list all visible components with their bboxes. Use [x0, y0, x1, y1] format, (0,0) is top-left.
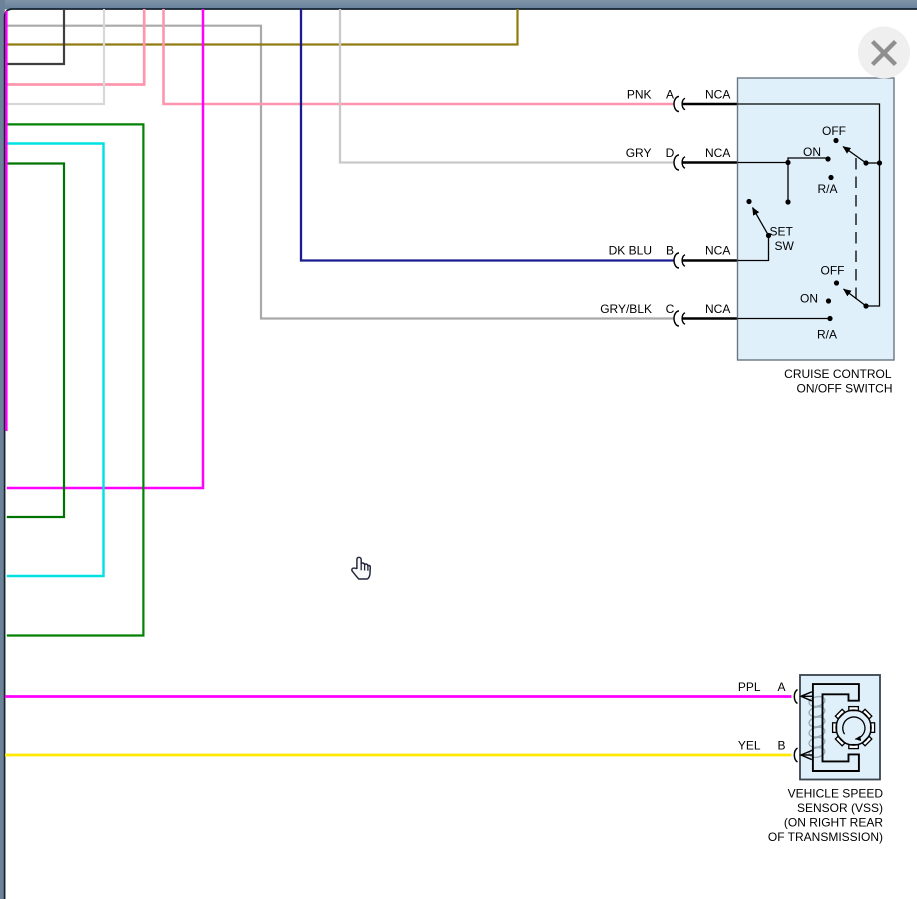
- svg-text:SET: SET: [770, 225, 794, 239]
- svg-text:ON/OFF SWITCH: ON/OFF SWITCH: [797, 382, 893, 396]
- svg-text:PPL: PPL: [738, 680, 761, 694]
- node: lower switch common: [863, 303, 868, 308]
- close button: [858, 27, 910, 79]
- svg-text:R/A: R/A: [817, 182, 837, 196]
- wire stub pin A: [682, 103, 738, 105]
- node: upper OFF contact: [833, 138, 838, 143]
- svg-text:NCA: NCA: [705, 244, 730, 258]
- connector symbol pin A: [674, 97, 685, 112]
- wire: pink net to PNK connector A: [164, 9, 675, 104]
- VSS coil winding: [808, 695, 826, 759]
- wire: magenta along left edge: [5, 11, 7, 431]
- ganged switch linkage (dashed): [855, 158, 857, 300]
- svg-text:DK BLU: DK BLU: [609, 244, 652, 258]
- wire: dark gray corner: [7, 9, 64, 64]
- svg-text:NCA: NCA: [705, 302, 730, 316]
- wire: navy net to DK BLU connector B: [301, 9, 674, 261]
- node: lower ON contact: [826, 298, 831, 303]
- wire: dark green loop: [7, 164, 64, 518]
- svg-text:A: A: [777, 680, 785, 694]
- svg-text:ON: ON: [803, 145, 821, 159]
- VSS pin A arrow: [801, 692, 813, 701]
- svg-text:R/A: R/A: [817, 328, 837, 342]
- svg-text:ON: ON: [800, 292, 818, 306]
- svg-text:PNK: PNK: [627, 88, 652, 102]
- svg-text:D: D: [666, 146, 675, 160]
- connector arc pin B (VSS): [794, 748, 797, 762]
- svg-text:SENSOR (VSS): SENSOR (VSS): [797, 801, 883, 815]
- connector arc pin A (VSS): [794, 690, 797, 704]
- wire stub pin B: [682, 259, 738, 261]
- wire: GRY net inside box: [738, 162, 789, 164]
- wire: switch common tie: [866, 162, 880, 164]
- close button X: [873, 42, 896, 65]
- svg-text:VEHICLE SPEED: VEHICLE SPEED: [788, 787, 884, 801]
- connector symbol pin B: [674, 253, 685, 268]
- node: SET SW common: [766, 233, 771, 238]
- svg-text:GRY/BLK: GRY/BLK: [600, 302, 652, 316]
- left gutter strip: [0, 0, 5, 899]
- switch arm SET SW: [753, 208, 769, 236]
- node: lower OFF contact: [834, 280, 839, 285]
- connector symbol pin C: [674, 311, 685, 326]
- wire: GRY/BLK net inside box to R/A: [738, 318, 831, 320]
- svg-text:OFF: OFF: [821, 264, 845, 278]
- wire: jog to ON contact: [788, 158, 826, 163]
- svg-text:B: B: [666, 244, 674, 258]
- wire: YEL yellow to VSS pin B: [5, 754, 792, 757]
- wire: light gray net to GRY connector D: [340, 9, 674, 163]
- switch arm lower (to OFF): [844, 289, 867, 306]
- svg-text:NCA: NCA: [705, 146, 730, 160]
- svg-text:OF TRANSMISSION): OF TRANSMISSION): [768, 830, 883, 844]
- node: R/A contact on GRY/BLK: [827, 316, 832, 321]
- VSS core bracket: [813, 684, 859, 771]
- vehicle speed sensor box: [800, 675, 880, 780]
- VSS pin B arrow: [801, 751, 813, 760]
- wire: green box loop: [7, 124, 144, 635]
- wire: dark yellow (olive): [7, 9, 518, 45]
- node: upper ON contact: [825, 156, 830, 161]
- svg-text:(ON RIGHT REAR: (ON RIGHT REAR: [784, 816, 883, 830]
- wire stub pin C: [682, 317, 738, 319]
- svg-text:OFF: OFF: [822, 124, 846, 138]
- wire: light gray corner: [7, 9, 104, 104]
- svg-text:A: A: [666, 88, 674, 102]
- VSS tone wheel: [836, 710, 871, 745]
- node: upper switch common right: [877, 160, 882, 165]
- wire: PPL magenta to VSS pin A: [5, 695, 792, 698]
- wire: DK BLU net inside box: [738, 236, 769, 261]
- svg-text:GRY: GRY: [626, 146, 652, 160]
- wire: GRY drop to SET SW contact: [787, 163, 789, 203]
- top toolbar bar: [0, 0, 917, 9]
- svg-text:SW: SW: [775, 239, 795, 253]
- svg-text:YEL: YEL: [738, 739, 761, 753]
- wire: cyan loop: [7, 144, 104, 577]
- wire: magenta corner: [7, 9, 203, 488]
- wire stub pin D: [682, 161, 738, 163]
- wire: PNK net inside box to switch common: [738, 104, 880, 306]
- svg-text:NCA: NCA: [705, 88, 730, 102]
- node: GRY junction: [785, 160, 790, 165]
- VSS tone wheel teeth: [833, 707, 875, 749]
- svg-text:B: B: [777, 739, 785, 753]
- svg-text:C: C: [666, 302, 675, 316]
- switch arm upper (to OFF): [843, 147, 866, 164]
- wire: pink corner: [7, 9, 144, 85]
- connector symbol pin D: [674, 155, 685, 170]
- mouse cursor (hand): [352, 557, 370, 579]
- wire: gray net to GRY/BLK connector C: [7, 26, 674, 319]
- VSS rotation arrow: [843, 717, 865, 739]
- node: upper R/A contact: [828, 175, 833, 180]
- svg-text:CRUISE CONTROL: CRUISE CONTROL: [784, 367, 892, 381]
- node: GRY lower contact: [785, 199, 790, 204]
- cruise control switch box U1: [738, 78, 895, 360]
- node: upper switch common left: [863, 160, 868, 165]
- node: SET SW fixed contact: [746, 199, 751, 204]
